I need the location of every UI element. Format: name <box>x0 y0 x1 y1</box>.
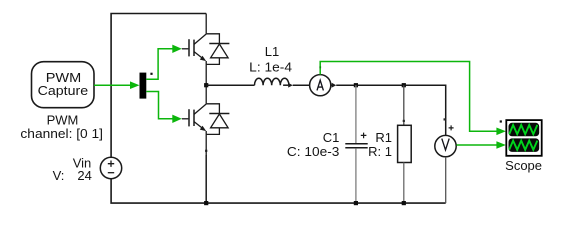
svg-text:L1: L1 <box>265 44 279 59</box>
svg-text:channel: [0 1]: channel: [0 1] <box>20 126 102 141</box>
svg-text:L: 1e-4: L: 1e-4 <box>249 59 292 74</box>
wire mid node to inductor <box>206 84 254 86</box>
inductor L1 <box>255 78 289 85</box>
resistor R1 <box>398 125 412 162</box>
label PWM channel annotation <box>20 112 102 140</box>
wire bottom rail <box>111 179 446 203</box>
node junction capacitor at bottom rail <box>354 201 358 205</box>
svg-text:R: 1: R: 1 <box>368 144 392 159</box>
label Vin value <box>53 156 92 183</box>
ammeter A <box>310 75 331 96</box>
transistor Q2 IGBT with diode D2 <box>182 85 230 155</box>
voltmeter V <box>435 125 456 156</box>
node dot near scope <box>500 120 502 122</box>
node junction resistor tap <box>402 83 406 87</box>
label C1 <box>287 130 340 159</box>
wire capacitor branch upper (gray) <box>355 85 357 143</box>
svg-text:Capture: Capture <box>38 83 89 98</box>
node port tick on Q2 emitter wire <box>205 150 207 152</box>
svg-text:R1: R1 <box>375 130 392 145</box>
wire voltmeter bottom to rail <box>445 157 447 203</box>
node junction resistor at bottom rail <box>402 201 406 205</box>
wire inductor to ammeter with arrowhead <box>283 83 310 88</box>
svg-text:C: 10e-3: C: 10e-3 <box>287 144 340 159</box>
node dot near demux <box>150 73 152 75</box>
node port tick on ammeter measurement wire <box>319 66 321 68</box>
svg-text:C1: C1 <box>323 130 340 145</box>
capacitor C1 <box>345 133 367 148</box>
PWM Capture block U1 <box>32 62 95 108</box>
demux <box>140 73 147 99</box>
wire resistor branch upper (gray) <box>403 85 405 125</box>
wire ammeter to voltmeter branch corner <box>331 83 446 136</box>
node port tick on voltmeter wire <box>444 118 446 120</box>
svg-text:V:: V: <box>53 168 65 183</box>
wire top rail and left rail <box>111 14 206 158</box>
voltage source Vin <box>100 157 121 178</box>
node junction Q2 emitter at bottom rail <box>204 201 208 205</box>
svg-text:Scope: Scope <box>505 158 542 173</box>
node port tick on resistor wire <box>403 120 405 122</box>
scope block <box>506 120 541 156</box>
wire resistor branch lower (gray) <box>403 163 405 204</box>
svg-text:24: 24 <box>77 168 91 183</box>
node junction mid-point <box>204 83 208 87</box>
wire PWM output to demux (green) <box>94 81 140 89</box>
transistor Q1 IGBT with diode D1 <box>182 14 230 86</box>
wire demux out2 to Q2 gate (green) <box>146 92 182 124</box>
wire demux out1 to Q1 gate (green) <box>146 45 182 80</box>
wire ammeter measurement to scope (green) <box>320 62 506 136</box>
wire capacitor branch lower (gray) <box>355 148 357 203</box>
label R1 <box>368 130 392 159</box>
wire Q2 emitter to bottom rail <box>205 155 207 203</box>
wire voltmeter measurement to scope (green) <box>457 141 506 149</box>
node junction capacitor tap <box>354 83 358 87</box>
label L1 <box>249 44 292 74</box>
